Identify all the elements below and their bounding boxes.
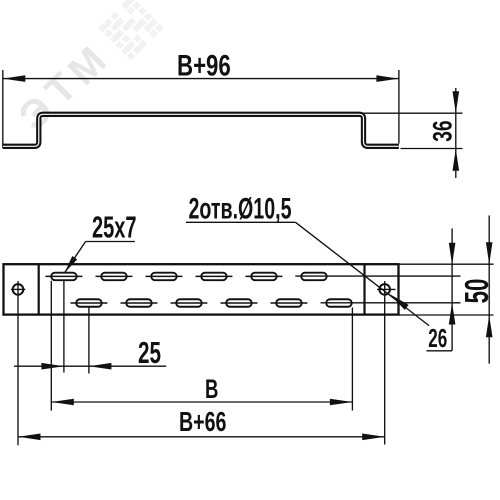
svg-text:B+96: B+96 [177,49,231,82]
svg-text:25: 25 [138,335,161,370]
svg-text:50: 50 [458,279,495,304]
svg-text:25х7: 25х7 [92,210,137,245]
svg-text:26: 26 [428,325,447,353]
svg-text:36: 36 [428,120,458,141]
svg-text:B: B [205,374,218,404]
svg-text:B+66: B+66 [179,406,226,437]
svg-text:2отв.Ø10,5: 2отв.Ø10,5 [189,193,292,226]
